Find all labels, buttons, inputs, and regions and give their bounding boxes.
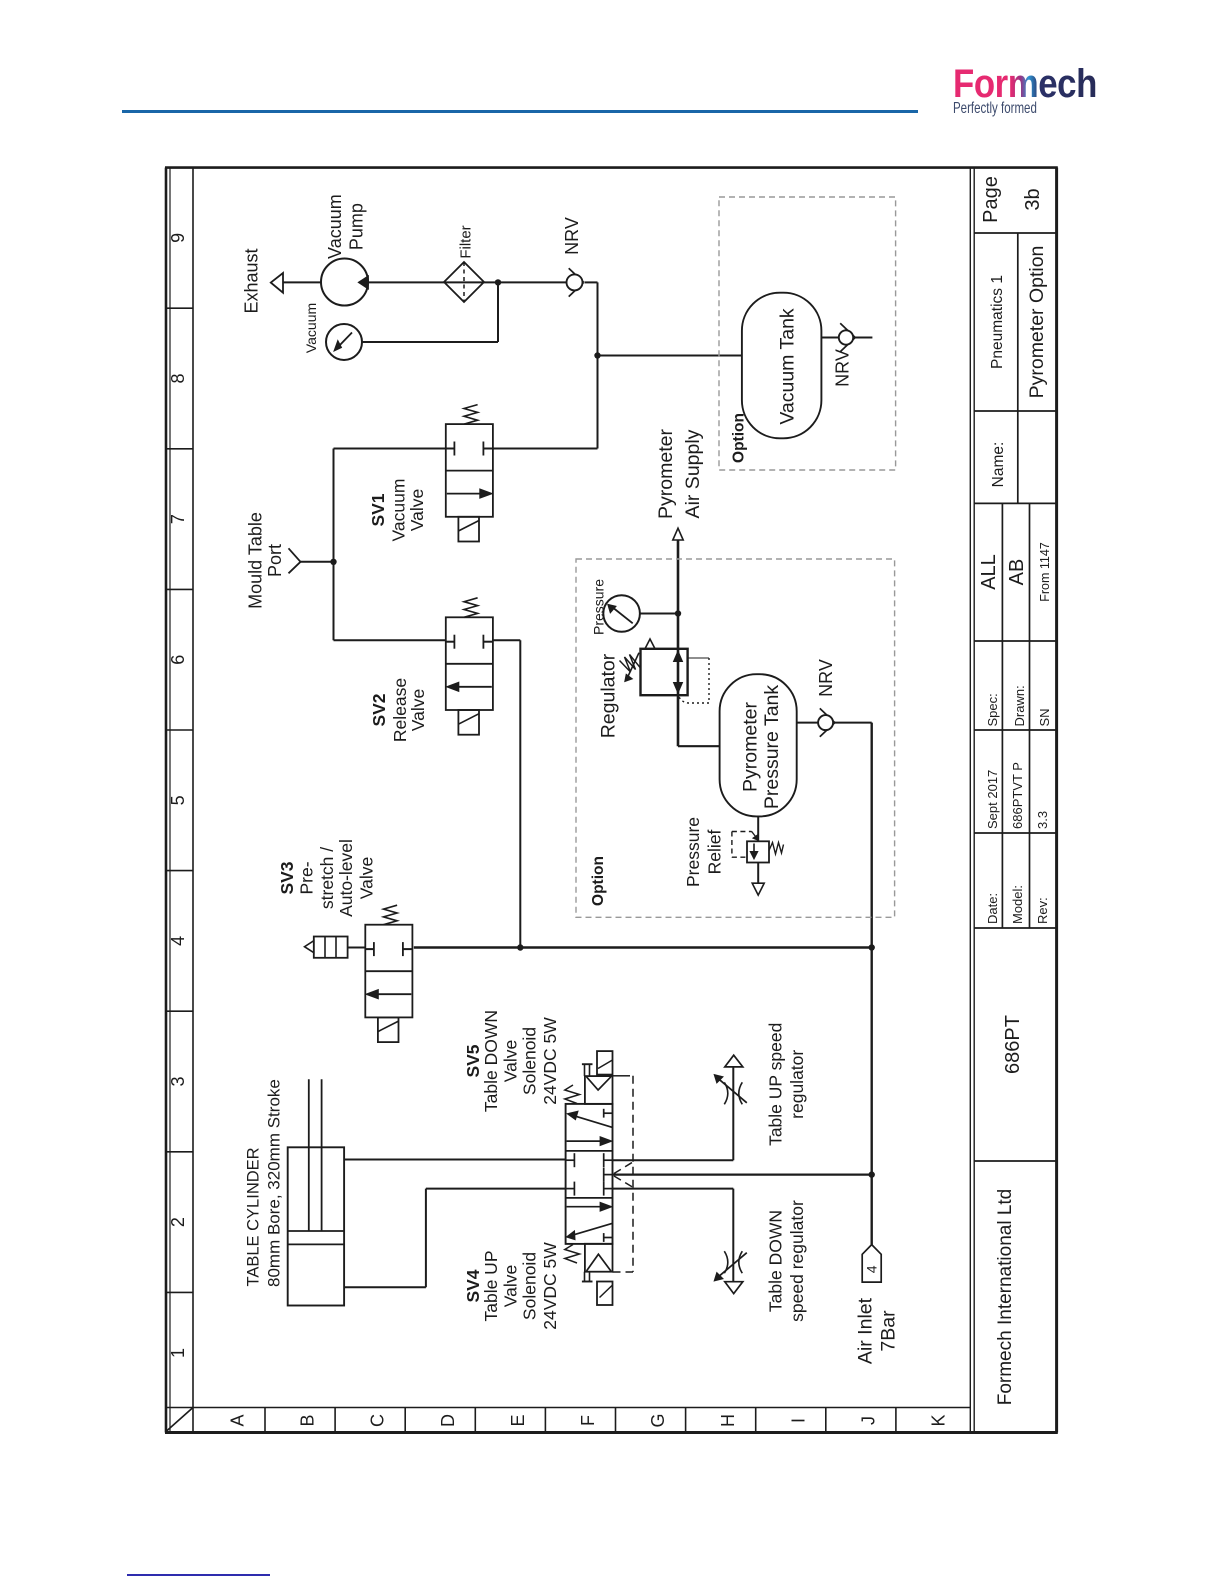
svg-text:Pressure: Pressure — [683, 817, 703, 887]
svg-text:Mould Table: Mould Table — [246, 512, 266, 609]
svg-text:9: 9 — [168, 233, 188, 243]
svg-text:Sept 2017: Sept 2017 — [985, 770, 1000, 829]
svg-text:2: 2 — [168, 1217, 188, 1227]
svg-text:NRV: NRV — [833, 349, 853, 387]
svg-text:E: E — [508, 1414, 528, 1426]
svg-text:stretch /: stretch / — [317, 847, 337, 909]
svg-text:4: 4 — [168, 936, 188, 946]
svg-text:Drawn:: Drawn: — [1012, 685, 1027, 726]
svg-text:Valve: Valve — [501, 1040, 521, 1082]
svg-text:Pyrometer: Pyrometer — [655, 429, 677, 519]
svg-text:Vacuum: Vacuum — [325, 194, 345, 259]
svg-text:Filter: Filter — [458, 225, 475, 258]
svg-text:regulator: regulator — [787, 1050, 807, 1119]
svg-text:686PT: 686PT — [1002, 1015, 1024, 1074]
svg-text:B: B — [298, 1414, 318, 1426]
svg-text:Auto-level: Auto-level — [336, 839, 356, 917]
svg-text:F: F — [578, 1415, 598, 1426]
svg-text:24VDC 5W: 24VDC 5W — [540, 1242, 560, 1330]
svg-text:TABLE CYLINDER: TABLE CYLINDER — [245, 1147, 263, 1286]
svg-text:24VDC 5W: 24VDC 5W — [540, 1017, 560, 1105]
svg-text:5: 5 — [168, 795, 188, 805]
svg-text:Date:: Date: — [985, 893, 1000, 924]
svg-text:Port: Port — [265, 544, 285, 577]
svg-text:Pneumatics 1: Pneumatics 1 — [989, 275, 1006, 369]
svg-text:D: D — [438, 1414, 458, 1427]
svg-text:Pyrometer Option: Pyrometer Option — [1026, 246, 1048, 399]
svg-text:Vacuum Tank: Vacuum Tank — [777, 308, 799, 425]
svg-text:Model:: Model: — [1010, 885, 1025, 924]
svg-text:1: 1 — [168, 1348, 188, 1358]
svg-text:Pyrometer: Pyrometer — [740, 702, 762, 792]
svg-text:3.3: 3.3 — [1035, 811, 1050, 829]
svg-text:Option: Option — [590, 856, 607, 906]
svg-text:Valve: Valve — [357, 857, 377, 899]
svg-text:Table DOWN: Table DOWN — [481, 1010, 501, 1112]
svg-text:8: 8 — [168, 373, 188, 383]
svg-text:4: 4 — [864, 1265, 880, 1273]
svg-text:SN: SN — [1037, 708, 1052, 726]
svg-text:SV5: SV5 — [463, 1044, 483, 1077]
svg-text:AB: AB — [1006, 559, 1028, 586]
svg-text:Valve: Valve — [501, 1265, 521, 1307]
svg-text:I: I — [788, 1418, 808, 1423]
svg-text:7: 7 — [168, 514, 188, 524]
svg-text:Table UP: Table UP — [481, 1250, 501, 1321]
svg-text:SV3: SV3 — [277, 861, 297, 894]
svg-text:NRV: NRV — [562, 217, 582, 255]
svg-text:From 1147: From 1147 — [1038, 542, 1052, 602]
svg-text:7Bar: 7Bar — [878, 1310, 900, 1352]
svg-text:G: G — [648, 1413, 668, 1427]
svg-text:80mm Bore, 320mm Stroke: 80mm Bore, 320mm Stroke — [265, 1079, 284, 1287]
svg-text:SV2: SV2 — [369, 693, 389, 726]
svg-text:Vacuum: Vacuum — [389, 479, 409, 542]
svg-text:SV1: SV1 — [368, 493, 388, 526]
svg-text:Table DOWN: Table DOWN — [766, 1210, 786, 1312]
svg-text:Vacuum: Vacuum — [303, 303, 319, 353]
svg-text:Valve: Valve — [408, 689, 428, 731]
svg-text:Solenoid: Solenoid — [520, 1027, 540, 1095]
svg-text:Valve: Valve — [407, 489, 427, 531]
svg-text:A: A — [228, 1414, 248, 1426]
svg-text:Air Inlet: Air Inlet — [855, 1297, 877, 1364]
svg-text:Table UP speed: Table UP speed — [766, 1023, 786, 1146]
svg-text:SV4: SV4 — [463, 1269, 483, 1302]
svg-text:686PTVT P: 686PTVT P — [1010, 762, 1025, 829]
svg-text:Exhaust: Exhaust — [242, 248, 262, 313]
svg-text:H: H — [718, 1414, 738, 1427]
svg-text:Regulator: Regulator — [598, 653, 620, 738]
svg-text:Option: Option — [731, 413, 748, 463]
svg-text:Pre-: Pre- — [297, 861, 317, 894]
svg-text:Name:: Name: — [990, 442, 1007, 488]
svg-text:Spec:: Spec: — [985, 693, 1000, 726]
svg-text:Formech International Ltd: Formech International Ltd — [995, 1189, 1016, 1406]
svg-text:Relief: Relief — [705, 829, 725, 874]
svg-text:speed regulator: speed regulator — [787, 1200, 807, 1322]
svg-text:NRV: NRV — [816, 659, 836, 697]
svg-text:J: J — [858, 1416, 878, 1425]
svg-text:Rev:: Rev: — [1035, 897, 1050, 924]
svg-text:Air Supply: Air Supply — [682, 429, 704, 518]
svg-text:Pump: Pump — [347, 203, 367, 250]
svg-text:Solenoid: Solenoid — [520, 1252, 540, 1320]
svg-text:3: 3 — [168, 1076, 188, 1086]
svg-text:Pressure: Pressure — [591, 579, 607, 635]
svg-text:6: 6 — [168, 655, 188, 665]
svg-text:3b: 3b — [1022, 188, 1044, 210]
svg-text:ALL: ALL — [978, 554, 1000, 590]
svg-text:Release: Release — [390, 678, 410, 742]
svg-text:C: C — [368, 1414, 388, 1427]
svg-text:Page: Page — [980, 176, 1002, 223]
svg-text:Pressure Tank: Pressure Tank — [761, 685, 783, 810]
svg-text:K: K — [929, 1414, 949, 1426]
